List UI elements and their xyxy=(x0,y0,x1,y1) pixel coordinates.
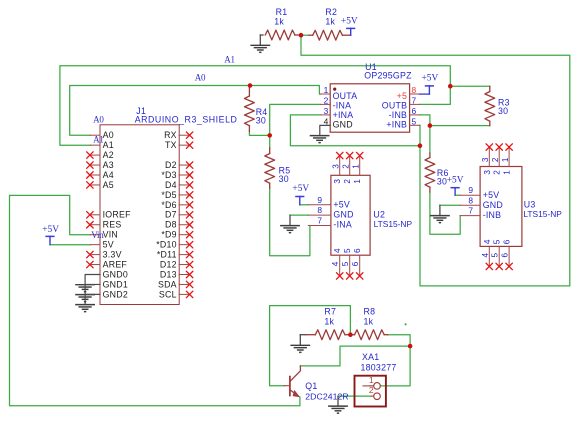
svg-text:+5V: +5V xyxy=(422,73,439,83)
svg-text:VIN: VIN xyxy=(103,230,118,240)
svg-text:*D3: *D3 xyxy=(161,170,176,180)
svg-text:30: 30 xyxy=(279,174,289,184)
svg-text:1: 1 xyxy=(369,375,374,385)
svg-text:7: 7 xyxy=(317,215,322,225)
svg-text:GND: GND xyxy=(333,120,353,130)
svg-text:A0: A0 xyxy=(93,114,104,124)
svg-text:2: 2 xyxy=(493,170,502,175)
svg-text:+INB: +INB xyxy=(386,120,407,130)
svg-text:A1: A1 xyxy=(224,54,235,64)
svg-text:+INA: +INA xyxy=(333,110,354,120)
svg-text:2: 2 xyxy=(343,179,352,184)
svg-text:GND0: GND0 xyxy=(103,269,128,279)
svg-text:RES: RES xyxy=(103,220,122,230)
svg-text:4: 4 xyxy=(481,252,490,257)
svg-text:A1: A1 xyxy=(93,135,104,145)
svg-text:-INB: -INB xyxy=(483,210,502,220)
svg-text:1803277: 1803277 xyxy=(361,363,397,373)
svg-text:2DC2412R: 2DC2412R xyxy=(305,392,348,402)
svg-text:*D6: *D6 xyxy=(161,200,176,210)
svg-text:D12: D12 xyxy=(160,259,177,269)
svg-text:+5V: +5V xyxy=(447,175,464,185)
svg-text:3: 3 xyxy=(483,170,492,175)
svg-text:U3: U3 xyxy=(524,200,536,210)
svg-text:+5V: +5V xyxy=(341,17,358,27)
svg-text:AREF: AREF xyxy=(103,259,128,269)
svg-text:5: 5 xyxy=(343,248,352,253)
svg-text:2: 2 xyxy=(342,164,351,169)
svg-text:TX: TX xyxy=(165,140,177,150)
svg-text:9: 9 xyxy=(317,195,322,205)
svg-text:2: 2 xyxy=(491,157,500,162)
svg-text:-INB: -INB xyxy=(389,110,408,120)
svg-text:1k: 1k xyxy=(274,17,284,27)
svg-text:6: 6 xyxy=(501,252,510,257)
svg-text:R8: R8 xyxy=(364,307,376,317)
svg-text:D4: D4 xyxy=(165,180,177,190)
svg-text:1k: 1k xyxy=(325,17,335,27)
svg-text:+5V: +5V xyxy=(483,190,500,200)
svg-text:6: 6 xyxy=(351,261,360,266)
svg-text:IOREF: IOREF xyxy=(103,210,132,220)
svg-text:30: 30 xyxy=(498,106,508,116)
svg-text:D13: D13 xyxy=(160,269,177,279)
svg-text:A0: A0 xyxy=(103,130,114,140)
svg-text:D8: D8 xyxy=(165,220,177,230)
svg-text:+5V: +5V xyxy=(333,200,350,210)
svg-text:1k: 1k xyxy=(364,317,374,327)
svg-text:GND: GND xyxy=(483,200,503,210)
svg-text:5: 5 xyxy=(491,252,500,257)
svg-text:1: 1 xyxy=(501,157,510,162)
svg-text:D7: D7 xyxy=(165,210,177,220)
svg-text:+5: +5 xyxy=(397,91,408,101)
svg-text:LTS15-NP: LTS15-NP xyxy=(523,209,562,219)
svg-text:OP295GPZ: OP295GPZ xyxy=(364,70,412,80)
svg-text:6: 6 xyxy=(503,239,512,244)
svg-text:SCL: SCL xyxy=(159,289,177,299)
svg-text:-INA: -INA xyxy=(333,100,352,110)
svg-text:SDA: SDA xyxy=(158,279,177,289)
svg-text:3.3V: 3.3V xyxy=(103,250,122,260)
svg-text:OUTB: OUTB xyxy=(382,100,407,110)
svg-text:+5V: +5V xyxy=(292,184,309,194)
svg-text:GND1: GND1 xyxy=(103,279,128,289)
svg-text:1: 1 xyxy=(324,85,329,95)
svg-text:3: 3 xyxy=(332,164,341,169)
svg-text:2: 2 xyxy=(369,385,374,395)
svg-text:7: 7 xyxy=(412,96,417,106)
svg-text:LTS15-NP: LTS15-NP xyxy=(374,219,413,229)
svg-text:4: 4 xyxy=(483,239,492,244)
svg-text:A2: A2 xyxy=(103,150,114,160)
svg-text:8: 8 xyxy=(317,205,322,215)
svg-text:1: 1 xyxy=(352,164,361,169)
svg-text:+5V: +5V xyxy=(42,225,59,235)
svg-text:5: 5 xyxy=(493,239,502,244)
svg-text:OUTA: OUTA xyxy=(333,91,358,101)
svg-text:7: 7 xyxy=(468,206,473,216)
svg-text:XA1: XA1 xyxy=(362,352,379,362)
svg-text:2: 2 xyxy=(324,96,329,106)
svg-text:3: 3 xyxy=(324,106,329,116)
svg-text:4: 4 xyxy=(324,116,329,126)
svg-text:*D5: *D5 xyxy=(161,190,176,200)
svg-text:GND2: GND2 xyxy=(103,289,128,299)
svg-text:GND: GND xyxy=(333,210,353,220)
svg-text:5V: 5V xyxy=(103,240,114,250)
svg-text:A3: A3 xyxy=(103,160,114,170)
svg-text:5: 5 xyxy=(412,116,417,126)
svg-text:1k: 1k xyxy=(324,317,334,327)
svg-text:1: 1 xyxy=(353,179,362,184)
svg-text:*D11: *D11 xyxy=(157,250,177,260)
svg-text:30: 30 xyxy=(256,116,266,126)
svg-text:9: 9 xyxy=(468,185,473,195)
svg-text:A5: A5 xyxy=(103,180,114,190)
svg-text:Vin: Vin xyxy=(91,230,104,240)
svg-text:A1: A1 xyxy=(103,140,114,150)
svg-text:*D9: *D9 xyxy=(161,230,176,240)
svg-text:3: 3 xyxy=(333,179,342,184)
svg-text:1: 1 xyxy=(503,170,512,175)
svg-text:4: 4 xyxy=(333,248,342,253)
svg-text:6: 6 xyxy=(353,248,362,253)
svg-text:8: 8 xyxy=(412,85,417,95)
svg-text:Q1: Q1 xyxy=(305,381,317,391)
svg-text:A0: A0 xyxy=(195,73,206,83)
svg-text:5: 5 xyxy=(341,261,350,266)
svg-text:A4: A4 xyxy=(103,170,114,180)
svg-text:30: 30 xyxy=(437,177,447,187)
svg-text:-INA: -INA xyxy=(333,220,352,230)
svg-text:8: 8 xyxy=(468,195,473,205)
svg-text:6: 6 xyxy=(412,106,417,116)
svg-text:ARDUINO_R3_SHIELD: ARDUINO_R3_SHIELD xyxy=(135,114,238,124)
svg-text:*D10: *D10 xyxy=(156,240,177,250)
svg-text:U2: U2 xyxy=(373,210,385,220)
svg-text:D2: D2 xyxy=(165,160,177,170)
svg-text:R7: R7 xyxy=(324,307,336,317)
svg-text:3: 3 xyxy=(481,157,490,162)
svg-text:RX: RX xyxy=(164,130,177,140)
svg-text:4: 4 xyxy=(331,261,340,266)
